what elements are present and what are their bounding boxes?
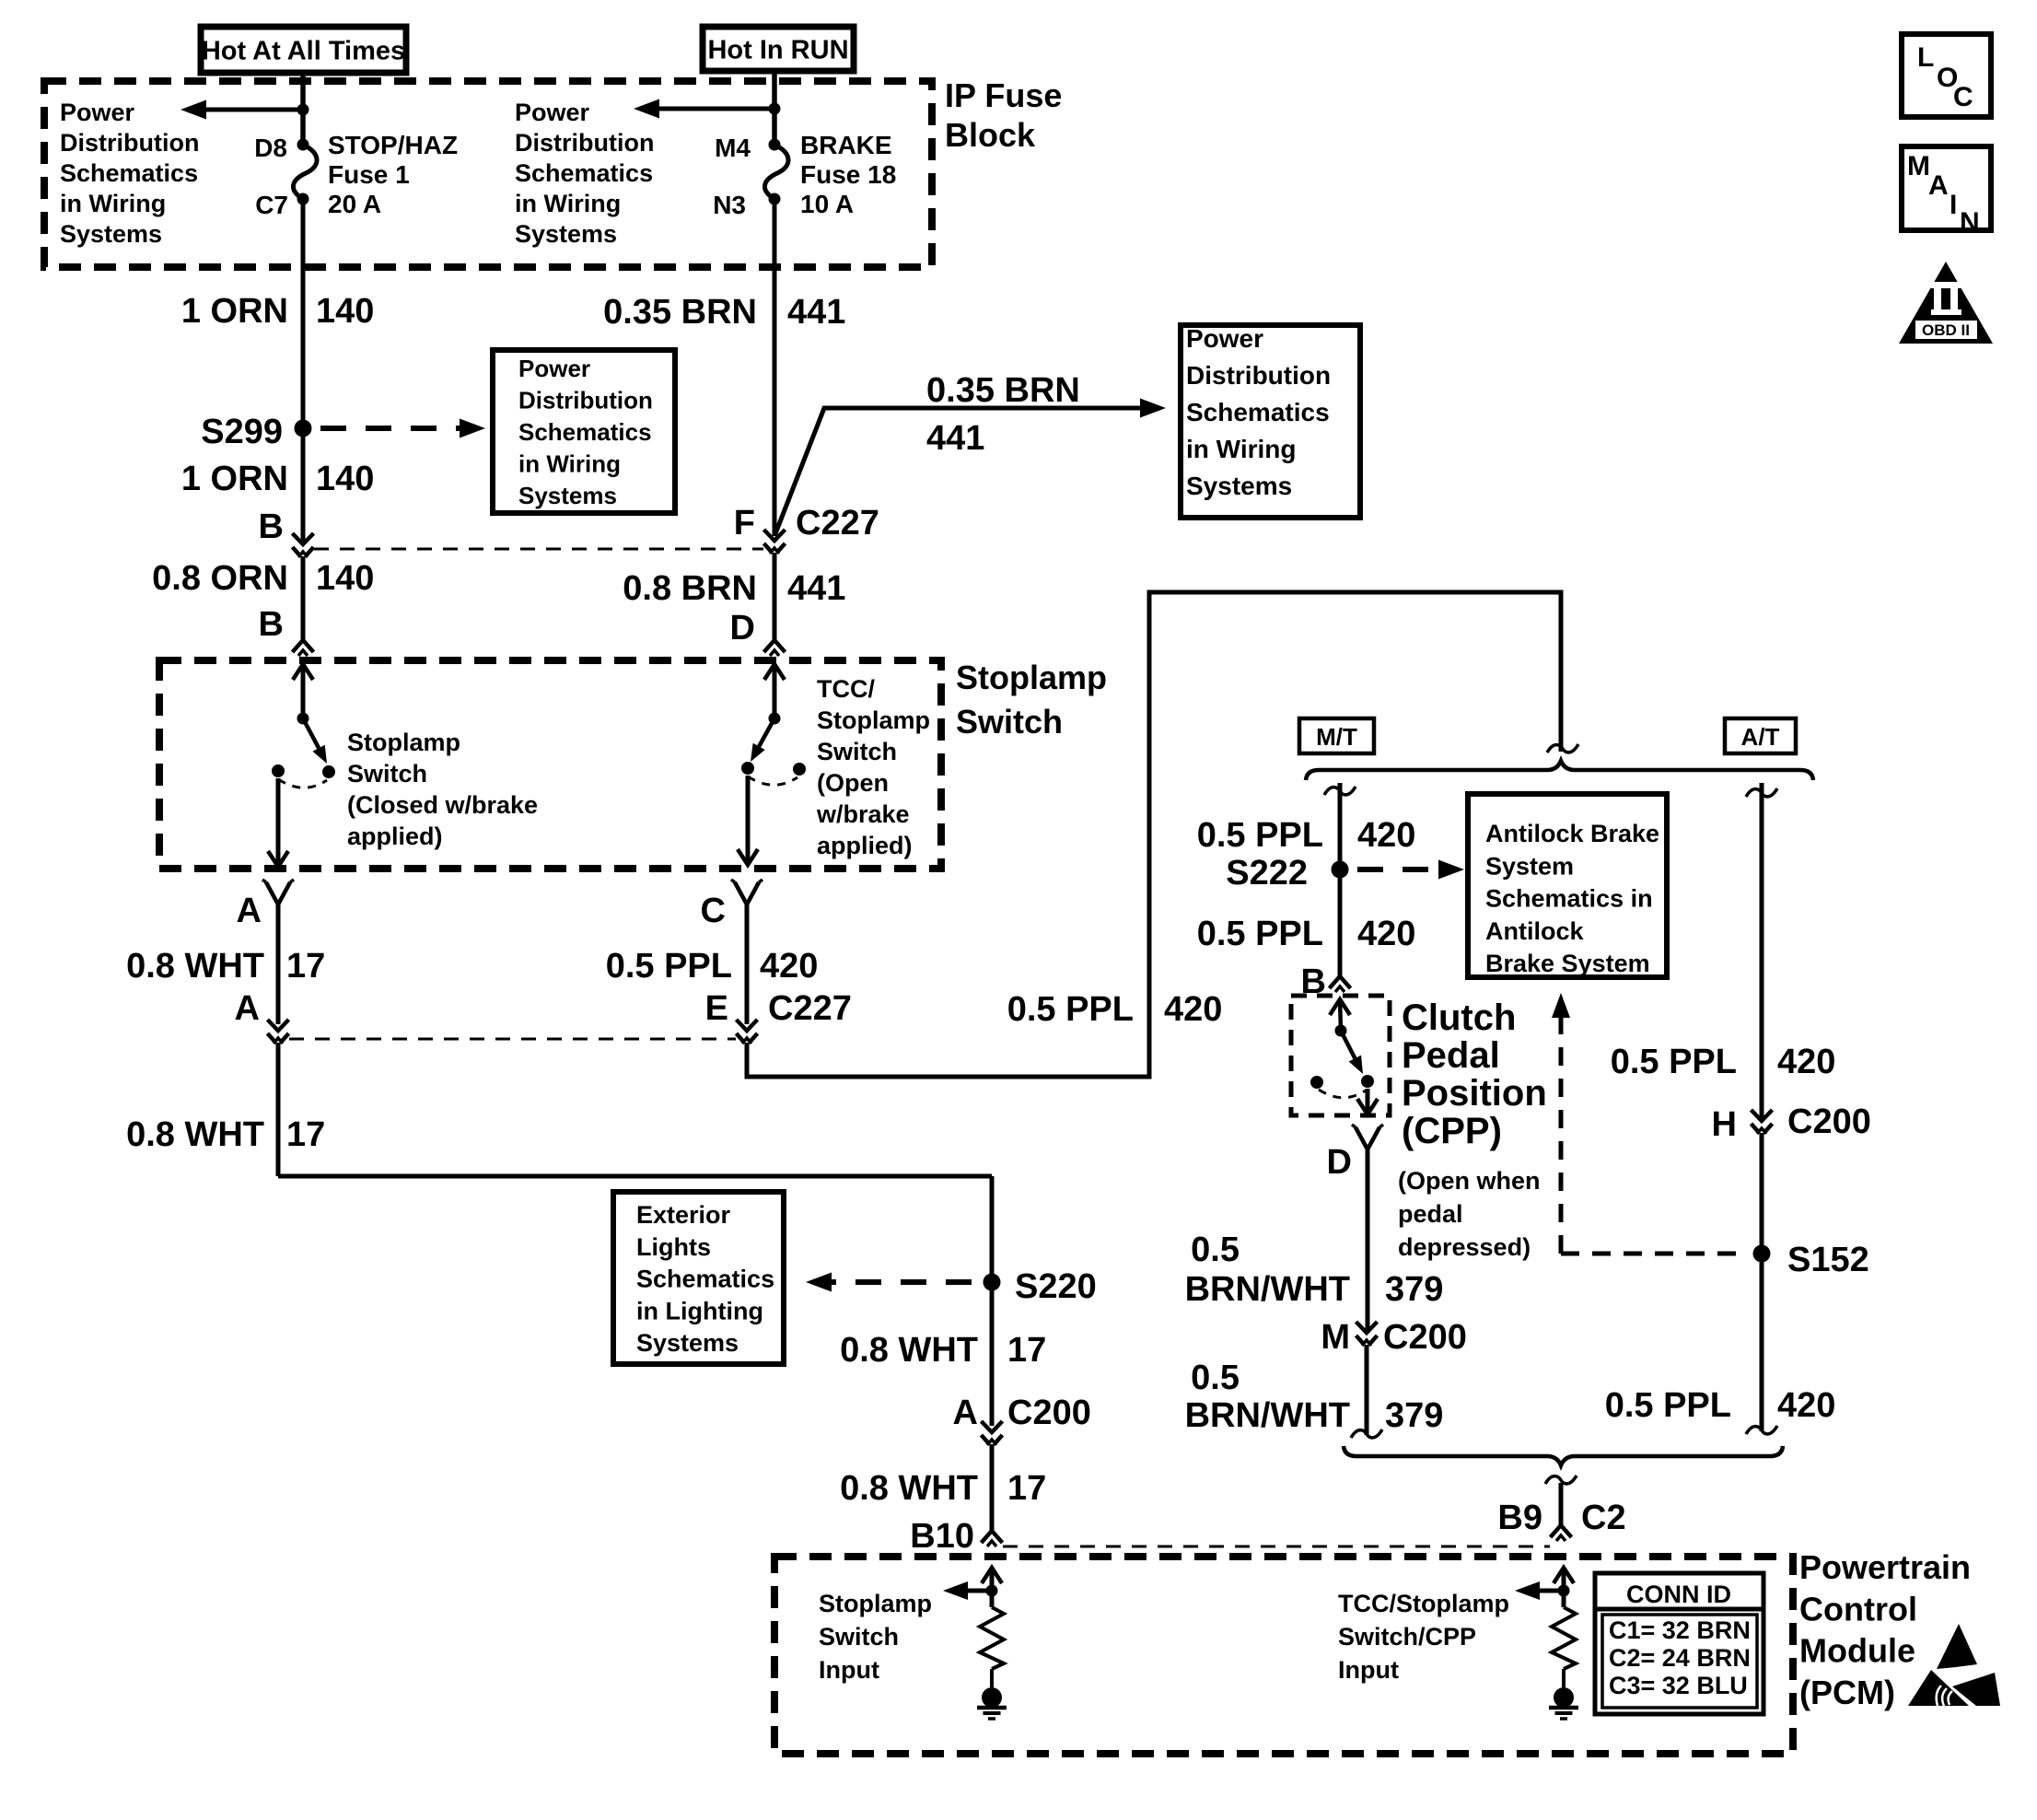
svg-text:in Wiring: in Wiring <box>518 450 621 478</box>
svg-text:S220: S220 <box>1015 1267 1097 1306</box>
svg-text:Switch: Switch <box>956 703 1063 741</box>
svg-text:Distribution: Distribution <box>1186 361 1331 390</box>
svg-text:in Wiring: in Wiring <box>60 190 166 217</box>
svg-text:S299: S299 <box>201 413 283 451</box>
svg-text:Fuse 1: Fuse 1 <box>328 160 410 189</box>
svg-text:Power: Power <box>518 355 590 382</box>
svg-text:420: 420 <box>760 947 818 986</box>
svg-text:Schematics: Schematics <box>515 159 653 187</box>
svg-text:BRAKE: BRAKE <box>800 131 892 159</box>
svg-text:w/brake: w/brake <box>816 800 910 828</box>
svg-text:Clutch: Clutch <box>1402 997 1516 1038</box>
svg-text:I: I <box>1950 190 1957 220</box>
svg-text:0.8 WHT: 0.8 WHT <box>840 1469 978 1508</box>
svg-text:Stoplamp: Stoplamp <box>819 1590 932 1617</box>
svg-text:Power: Power <box>1186 324 1263 353</box>
svg-text:0.35 BRN: 0.35 BRN <box>926 371 1080 410</box>
svg-text:17: 17 <box>286 947 325 986</box>
svg-text:B: B <box>259 605 284 644</box>
svg-text:Block: Block <box>945 116 1036 154</box>
svg-text:Switch: Switch <box>819 1623 899 1651</box>
svg-text:STOP/HAZ: STOP/HAZ <box>328 131 458 159</box>
svg-text:Exterior: Exterior <box>636 1201 731 1229</box>
svg-text:0.5: 0.5 <box>1191 1359 1240 1397</box>
svg-text:Stoplamp: Stoplamp <box>817 706 930 734</box>
svg-text:Distribution: Distribution <box>60 129 199 157</box>
svg-text:Schematics in: Schematics in <box>1485 885 1653 913</box>
svg-text:B10: B10 <box>910 1517 974 1556</box>
svg-text:0.8 ORN: 0.8 ORN <box>152 559 288 598</box>
svg-text:S222: S222 <box>1226 854 1308 892</box>
svg-text:0.5 PPL: 0.5 PPL <box>1611 1043 1737 1081</box>
svg-text:A: A <box>1928 170 1949 201</box>
svg-text:BRN/WHT: BRN/WHT <box>1185 1270 1350 1309</box>
svg-text:140: 140 <box>316 559 374 598</box>
svg-text:Systems: Systems <box>636 1329 739 1357</box>
svg-text:IP Fuse: IP Fuse <box>945 76 1062 114</box>
svg-text:pedal: pedal <box>1398 1200 1463 1228</box>
svg-text:C2: C2 <box>1581 1499 1626 1537</box>
svg-text:1 ORN: 1 ORN <box>181 460 288 498</box>
svg-text:Power: Power <box>60 99 135 126</box>
svg-text:A: A <box>235 989 260 1028</box>
svg-text:Distribution: Distribution <box>515 129 654 157</box>
svg-text:applied): applied) <box>347 822 443 850</box>
svg-text:Lights: Lights <box>636 1233 711 1261</box>
svg-text:in Wiring: in Wiring <box>1186 435 1297 463</box>
svg-text:Antilock Brake: Antilock Brake <box>1485 820 1659 847</box>
svg-text:0.8 WHT: 0.8 WHT <box>126 947 264 986</box>
svg-text:17: 17 <box>1007 1331 1046 1370</box>
svg-text:L: L <box>1917 42 1934 73</box>
svg-text:depressed): depressed) <box>1398 1233 1531 1261</box>
svg-text:Systems: Systems <box>518 482 617 509</box>
svg-text:Schematics: Schematics <box>60 159 198 187</box>
svg-text:N3: N3 <box>713 191 746 219</box>
svg-text:OBD II: OBD II <box>1922 321 1970 339</box>
svg-text:Fuse 18: Fuse 18 <box>800 160 896 189</box>
svg-text:420: 420 <box>1357 816 1415 855</box>
svg-text:Input: Input <box>1338 1656 1399 1684</box>
svg-text:Power: Power <box>515 99 590 126</box>
svg-text:0.5: 0.5 <box>1191 1231 1240 1269</box>
svg-text:D8: D8 <box>254 134 287 162</box>
svg-text:TCC/: TCC/ <box>817 675 875 703</box>
svg-text:441: 441 <box>926 419 984 458</box>
svg-text:F: F <box>734 504 755 542</box>
svg-text:0.8 WHT: 0.8 WHT <box>840 1331 978 1370</box>
svg-text:BRN/WHT: BRN/WHT <box>1185 1396 1350 1435</box>
svg-text:H: H <box>1712 1105 1737 1144</box>
svg-text:B: B <box>259 507 284 546</box>
svg-text:Position: Position <box>1402 1073 1547 1114</box>
svg-text:420: 420 <box>1777 1043 1835 1081</box>
svg-text:(Closed w/brake: (Closed w/brake <box>347 791 538 819</box>
svg-text:C: C <box>701 892 726 930</box>
svg-text:in Wiring: in Wiring <box>515 190 621 217</box>
svg-text:Pedal: Pedal <box>1402 1035 1500 1076</box>
svg-text:C227: C227 <box>768 989 852 1028</box>
svg-text:C3= 32 BLU: C3= 32 BLU <box>1609 1672 1748 1699</box>
svg-text:applied): applied) <box>817 832 913 859</box>
svg-text:420: 420 <box>1357 915 1415 953</box>
svg-text:420: 420 <box>1777 1386 1835 1425</box>
svg-text:20 A: 20 A <box>328 190 381 218</box>
svg-text:A: A <box>237 892 262 930</box>
svg-text:Antilock: Antilock <box>1485 917 1584 945</box>
svg-text:Hot At All Times: Hot At All Times <box>202 37 405 66</box>
svg-text:Schematics: Schematics <box>636 1266 774 1293</box>
svg-text:0.5 PPL: 0.5 PPL <box>1605 1386 1731 1425</box>
svg-text:C200: C200 <box>1007 1394 1091 1432</box>
svg-text:in Lighting: in Lighting <box>636 1297 763 1324</box>
svg-text:Input: Input <box>819 1656 879 1684</box>
svg-text:M/T: M/T <box>1316 723 1357 751</box>
svg-text:CONN ID: CONN ID <box>1626 1581 1731 1608</box>
svg-text:C: C <box>1953 82 1973 112</box>
svg-text:Stoplamp: Stoplamp <box>956 659 1107 696</box>
svg-text:Distribution: Distribution <box>518 387 653 414</box>
svg-text:Switch: Switch <box>817 738 897 765</box>
svg-text:N: N <box>1960 207 1980 238</box>
svg-text:Schematics: Schematics <box>518 418 652 446</box>
svg-text:Stoplamp: Stoplamp <box>347 729 460 756</box>
svg-text:17: 17 <box>286 1115 325 1154</box>
svg-text:0.5 PPL: 0.5 PPL <box>606 947 732 986</box>
svg-text:Brake System: Brake System <box>1485 950 1650 977</box>
svg-text:A: A <box>953 1394 978 1432</box>
svg-text:C7: C7 <box>255 191 288 219</box>
svg-text:441: 441 <box>787 569 845 608</box>
svg-text:Powertrain: Powertrain <box>1799 1548 1971 1586</box>
svg-text:Schematics: Schematics <box>1186 398 1330 426</box>
svg-text:C1= 32 BRN: C1= 32 BRN <box>1609 1616 1751 1644</box>
svg-text:140: 140 <box>316 460 374 498</box>
svg-text:TCC/Stoplamp: TCC/Stoplamp <box>1338 1590 1509 1617</box>
svg-text:Control: Control <box>1799 1590 1917 1627</box>
svg-text:1 ORN: 1 ORN <box>181 292 288 331</box>
svg-text:0.8 BRN: 0.8 BRN <box>623 569 757 608</box>
svg-text:M: M <box>1907 151 1930 181</box>
svg-text:D: D <box>730 609 755 647</box>
svg-text:S152: S152 <box>1787 1241 1869 1279</box>
svg-text:C200: C200 <box>1383 1318 1467 1357</box>
svg-text:0.5 PPL: 0.5 PPL <box>1197 915 1323 953</box>
svg-text:Switch/CPP: Switch/CPP <box>1338 1623 1476 1651</box>
svg-text:(Open: (Open <box>817 769 889 797</box>
svg-text:A/T: A/T <box>1741 723 1780 751</box>
svg-text:Systems: Systems <box>515 220 617 248</box>
svg-text:420: 420 <box>1164 990 1222 1029</box>
svg-text:(CPP): (CPP) <box>1402 1111 1502 1151</box>
svg-text:B9: B9 <box>1497 1499 1542 1537</box>
svg-text:E: E <box>705 989 728 1028</box>
svg-text:17: 17 <box>1007 1469 1046 1508</box>
svg-text:System: System <box>1485 852 1574 880</box>
svg-text:Systems: Systems <box>1186 472 1292 500</box>
svg-text:379: 379 <box>1385 1396 1443 1435</box>
svg-text:(PCM): (PCM) <box>1799 1674 1895 1711</box>
svg-text:C227: C227 <box>796 504 879 542</box>
svg-text:10 A: 10 A <box>800 190 854 218</box>
svg-text:441: 441 <box>787 293 845 332</box>
svg-text:Systems: Systems <box>60 220 162 248</box>
svg-text:140: 140 <box>316 292 374 331</box>
svg-text:0.5 PPL: 0.5 PPL <box>1197 816 1323 855</box>
svg-text:M: M <box>1321 1318 1350 1357</box>
svg-text:0.5 PPL: 0.5 PPL <box>1007 990 1134 1029</box>
svg-text:379: 379 <box>1385 1270 1443 1309</box>
svg-text:(Open when: (Open when <box>1398 1167 1541 1195</box>
svg-text:Switch: Switch <box>347 760 427 787</box>
svg-text:Module: Module <box>1799 1632 1915 1670</box>
svg-text:C2= 24 BRN: C2= 24 BRN <box>1609 1644 1751 1672</box>
svg-text:0.35 BRN: 0.35 BRN <box>603 293 757 332</box>
svg-text:C200: C200 <box>1787 1102 1871 1141</box>
svg-text:D: D <box>1327 1143 1352 1182</box>
svg-text:0.8 WHT: 0.8 WHT <box>126 1115 264 1154</box>
svg-text:M4: M4 <box>715 134 751 162</box>
svg-text:Hot In RUN: Hot In RUN <box>707 36 848 65</box>
